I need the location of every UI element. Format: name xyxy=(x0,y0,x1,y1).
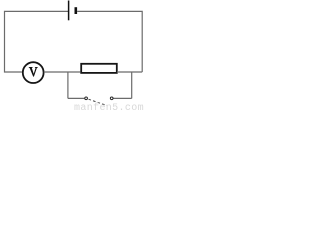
switch S open blade (dashed) xyxy=(89,99,108,105)
switch S left contact xyxy=(85,97,88,100)
wire top-left from battery to left side and down to voltmeter xyxy=(5,11,69,72)
wire bottom-left to switch xyxy=(68,97,85,99)
switch S right contact xyxy=(110,97,113,100)
watermark manfen5.com xyxy=(74,102,144,114)
node B junction stub right xyxy=(131,72,133,98)
wire voltmeter to resistor xyxy=(44,71,81,73)
voltmeter V xyxy=(23,62,44,83)
wire switch to bottom-right xyxy=(114,97,132,99)
wire top-right from battery to right side down to resistor branch xyxy=(77,11,142,72)
wire resistor to right side xyxy=(117,71,142,73)
battery BT1 short plate (-) xyxy=(75,7,78,14)
node A junction stub left xyxy=(67,72,69,98)
svg-text:manfen5.com: manfen5.com xyxy=(74,102,144,111)
battery BT1 long plate (+) xyxy=(68,1,70,21)
resistor R xyxy=(81,64,117,73)
